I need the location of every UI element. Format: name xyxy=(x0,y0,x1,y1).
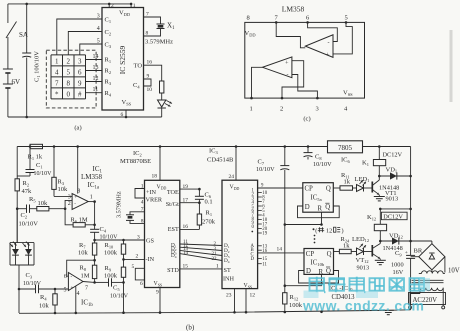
svg-text:-: - xyxy=(74,202,76,207)
svg-text:3: 3 xyxy=(78,58,82,66)
svg-text:C8: C8 xyxy=(315,154,322,161)
svg-text:R3: R3 xyxy=(58,179,65,186)
svg-text:1: 1 xyxy=(133,3,136,9)
svg-text:R12: R12 xyxy=(290,294,299,301)
svg-text:DC12V: DC12V xyxy=(383,151,403,158)
svg-text:3: 3 xyxy=(97,14,100,20)
svg-text:(: ( xyxy=(315,227,317,234)
svg-text:6: 6 xyxy=(64,274,67,280)
svg-text:10k: 10k xyxy=(78,250,89,257)
svg-text:6: 6 xyxy=(306,15,310,22)
svg-text:100k: 100k xyxy=(289,302,303,309)
svg-text:16V: 16V xyxy=(393,269,404,276)
svg-text:11: 11 xyxy=(262,262,267,267)
svg-text:3.579MHz: 3.579MHz xyxy=(145,39,173,46)
svg-text:MT8870BE: MT8870BE xyxy=(120,158,151,165)
svg-text:*: * xyxy=(55,91,59,99)
svg-text:8: 8 xyxy=(247,15,250,22)
svg-text:INH: INH xyxy=(223,276,235,283)
svg-text:DC12V: DC12V xyxy=(383,213,403,220)
svg-text:C4: C4 xyxy=(133,82,140,89)
svg-text:R2: R2 xyxy=(23,180,30,187)
svg-text:16: 16 xyxy=(262,249,267,254)
svg-text:+: + xyxy=(74,196,77,201)
svg-text:19: 19 xyxy=(262,232,267,237)
svg-text:VDD: VDD xyxy=(245,30,256,37)
svg-text:VSS: VSS xyxy=(122,99,132,106)
svg-text:7: 7 xyxy=(275,15,279,22)
svg-text:4: 4 xyxy=(141,200,144,206)
svg-text:10V: 10V xyxy=(448,267,460,274)
svg-text:C1: C1 xyxy=(36,162,43,169)
svg-text:(b): (b) xyxy=(186,324,195,331)
svg-text:10/10V: 10/10V xyxy=(110,294,129,300)
svg-text:270k: 270k xyxy=(202,219,216,226)
svg-text:#: # xyxy=(78,91,82,99)
svg-text:10k: 10k xyxy=(38,200,49,207)
svg-text:C3: C3 xyxy=(105,42,112,49)
svg-text:VDD: VDD xyxy=(119,10,130,17)
svg-text:CP: CP xyxy=(305,185,314,192)
svg-text:19: 19 xyxy=(183,184,189,190)
svg-text:C7: C7 xyxy=(258,159,265,166)
svg-text:TO: TO xyxy=(134,63,143,70)
svg-text:3: 3 xyxy=(137,235,140,241)
svg-text:14: 14 xyxy=(183,251,189,256)
svg-text:R10: R10 xyxy=(105,242,115,249)
svg-text:R: R xyxy=(319,269,324,276)
svg-text:GS: GS xyxy=(146,238,154,245)
svg-text:7805: 7805 xyxy=(338,144,353,152)
svg-text:R4: R4 xyxy=(105,90,112,97)
svg-text:16: 16 xyxy=(183,224,189,230)
svg-text:VSS: VSS xyxy=(244,283,253,289)
svg-text:15: 15 xyxy=(183,264,189,270)
svg-text:11: 11 xyxy=(93,87,99,93)
svg-text:14: 14 xyxy=(93,54,99,60)
svg-text:1N4148: 1N4148 xyxy=(383,245,403,252)
svg-text:R9: R9 xyxy=(105,265,112,272)
svg-text:IC3: IC3 xyxy=(209,148,219,155)
svg-text:7: 7 xyxy=(55,80,59,88)
svg-text:6: 6 xyxy=(78,69,82,77)
svg-text:2: 2 xyxy=(136,254,139,260)
svg-text:9013: 9013 xyxy=(386,195,399,202)
svg-text:VSS: VSS xyxy=(154,281,163,287)
svg-text:8: 8 xyxy=(67,80,71,88)
svg-text:23: 23 xyxy=(226,293,232,299)
svg-text:5: 5 xyxy=(345,15,348,22)
svg-text:VDD: VDD xyxy=(157,184,167,190)
svg-text:CD4514B: CD4514B xyxy=(207,157,234,164)
svg-text:TOE: TOE xyxy=(167,189,179,196)
svg-text:D: D xyxy=(305,204,310,211)
svg-text:R7: R7 xyxy=(79,242,86,249)
svg-text:4: 4 xyxy=(344,106,348,113)
svg-text:2: 2 xyxy=(67,58,71,66)
svg-text:D: D xyxy=(251,257,255,262)
svg-text:VD12: VD12 xyxy=(389,232,403,239)
svg-text:3: 3 xyxy=(68,194,71,200)
svg-text:R3: R3 xyxy=(105,79,112,86)
svg-text:R1: R1 xyxy=(105,57,112,64)
svg-text:K12: K12 xyxy=(367,214,376,221)
svg-text:VRER: VRER xyxy=(146,197,163,204)
svg-text:LM358: LM358 xyxy=(81,173,103,181)
svg-text:5: 5 xyxy=(64,288,67,294)
svg-text:EST: EST xyxy=(168,226,179,233)
svg-text:5: 5 xyxy=(132,264,135,270)
svg-text:(c): (c) xyxy=(303,116,310,123)
svg-text:Q: Q xyxy=(325,204,330,211)
svg-text:VSS: VSS xyxy=(343,90,353,97)
svg-text:IC5a: IC5a xyxy=(311,194,322,202)
svg-text:17: 17 xyxy=(183,197,189,203)
svg-text:0: 0 xyxy=(67,91,71,99)
svg-text:10k: 10k xyxy=(39,303,50,310)
svg-text:-: - xyxy=(71,275,73,280)
svg-text:C4: C4 xyxy=(100,226,107,233)
svg-text:C2: C2 xyxy=(105,29,112,36)
svg-text:2: 2 xyxy=(280,106,283,113)
svg-text:1: 1 xyxy=(55,58,59,66)
svg-text:4: 4 xyxy=(55,69,59,77)
svg-text:18: 18 xyxy=(152,174,158,180)
svg-text:10/10V: 10/10V xyxy=(313,161,332,168)
svg-text:1: 1 xyxy=(90,195,93,201)
svg-text:13: 13 xyxy=(93,65,99,71)
svg-text:Q: Q xyxy=(327,251,332,258)
svg-text:IC1a: IC1a xyxy=(88,181,100,191)
svg-text:10: 10 xyxy=(147,87,153,93)
svg-text:C1 100/10V: C1 100/10V xyxy=(34,51,41,82)
svg-text:VDD: VDD xyxy=(230,185,240,191)
svg-text:0: 0 xyxy=(252,225,255,230)
svg-text:10k: 10k xyxy=(58,186,69,193)
svg-text:STD: STD xyxy=(167,267,179,274)
svg-text:12: 12 xyxy=(93,76,99,82)
svg-text:2: 2 xyxy=(68,201,71,207)
svg-text:CP: CP xyxy=(306,251,315,258)
svg-text:100k: 100k xyxy=(104,273,118,280)
svg-text:Q: Q xyxy=(326,268,331,275)
svg-text:1: 1 xyxy=(141,183,144,189)
svg-text:4: 4 xyxy=(97,26,100,32)
svg-text:ST: ST xyxy=(224,267,231,274)
svg-text:9: 9 xyxy=(78,80,82,88)
svg-text:9013: 9013 xyxy=(357,264,370,271)
svg-text:12: 12 xyxy=(250,293,256,299)
svg-text:14: 14 xyxy=(277,247,283,253)
svg-text:R5: R5 xyxy=(29,196,36,203)
svg-text:R8: R8 xyxy=(80,265,87,272)
svg-text:1: 1 xyxy=(216,264,219,270)
svg-text:1k: 1k xyxy=(343,243,350,250)
svg-text:12: 12 xyxy=(326,227,332,234)
svg-text:BR: BR xyxy=(414,248,423,255)
svg-text:6: 6 xyxy=(121,112,124,118)
svg-text:+: + xyxy=(405,250,408,256)
svg-text:-: - xyxy=(287,73,289,79)
svg-text:R1: R1 xyxy=(206,210,213,217)
svg-text:(a): (a) xyxy=(74,125,81,132)
svg-text:C1: C1 xyxy=(105,17,112,24)
svg-text:22: 22 xyxy=(212,257,218,262)
svg-text:R4: R4 xyxy=(40,294,47,301)
svg-text:10/10V: 10/10V xyxy=(19,221,39,228)
svg-text:IC6: IC6 xyxy=(341,157,351,164)
svg-text:LM358: LM358 xyxy=(282,5,305,14)
svg-text:6: 6 xyxy=(140,281,143,287)
svg-text:LED1: LED1 xyxy=(355,176,370,183)
svg-text:1000: 1000 xyxy=(391,261,404,268)
svg-text:+IN: +IN xyxy=(146,189,157,196)
svg-text:6V: 6V xyxy=(12,78,21,86)
svg-text:24: 24 xyxy=(229,174,235,180)
svg-text:VT12: VT12 xyxy=(356,257,369,264)
svg-text:Q: Q xyxy=(326,185,331,192)
svg-text:0.1: 0.1 xyxy=(205,199,213,206)
svg-text:C2: C2 xyxy=(21,212,28,219)
svg-text:7: 7 xyxy=(85,286,88,292)
svg-text:5: 5 xyxy=(67,69,71,77)
svg-text:2: 2 xyxy=(111,3,114,9)
svg-text:+: + xyxy=(71,286,74,291)
svg-text:16: 16 xyxy=(147,60,153,66)
svg-text:5: 5 xyxy=(97,39,100,45)
svg-text:10/10V: 10/10V xyxy=(256,166,275,173)
svg-text:): ) xyxy=(342,227,344,234)
svg-text:IC S2559: IC S2559 xyxy=(118,45,127,74)
svg-text:K1: K1 xyxy=(362,160,369,167)
svg-text:100k: 100k xyxy=(104,250,118,257)
svg-text:R: R xyxy=(318,206,323,213)
svg-text:-: - xyxy=(328,41,330,47)
svg-text:3.579MHz: 3.579MHz xyxy=(116,191,123,218)
svg-text:R2: R2 xyxy=(105,68,112,75)
svg-text:7: 7 xyxy=(146,12,149,18)
svg-text:LED12: LED12 xyxy=(352,236,369,243)
svg-text:1k: 1k xyxy=(344,179,351,186)
svg-text:4: 4 xyxy=(77,291,80,297)
svg-text:7: 7 xyxy=(141,207,144,213)
svg-text:C5: C5 xyxy=(113,285,120,292)
svg-text:IC1b: IC1b xyxy=(81,299,93,309)
svg-text:10/10V: 10/10V xyxy=(34,171,53,177)
svg-text:IC2: IC2 xyxy=(133,150,142,157)
svg-text:D: D xyxy=(306,268,311,275)
svg-text:8: 8 xyxy=(141,218,144,224)
svg-text:-IN: -IN xyxy=(146,256,155,263)
svg-text:8: 8 xyxy=(146,30,149,36)
svg-text:9: 9 xyxy=(147,74,150,80)
svg-text:VD1: VD1 xyxy=(386,166,398,173)
svg-text:+: + xyxy=(285,61,289,67)
svg-text:3: 3 xyxy=(316,106,319,113)
svg-text:X1: X1 xyxy=(167,22,175,32)
svg-text:IC10b: IC10b xyxy=(311,259,325,267)
svg-text:St/Gt: St/Gt xyxy=(166,201,179,208)
svg-text:9: 9 xyxy=(156,290,159,296)
svg-text:1M: 1M xyxy=(81,273,90,280)
svg-text:www. cndzz. com: www. cndzz. com xyxy=(302,298,424,314)
svg-text:1: 1 xyxy=(250,106,253,113)
svg-text:47k: 47k xyxy=(22,188,33,195)
svg-text:C3: C3 xyxy=(26,272,33,279)
svg-text:R6 1M: R6 1M xyxy=(71,217,88,224)
